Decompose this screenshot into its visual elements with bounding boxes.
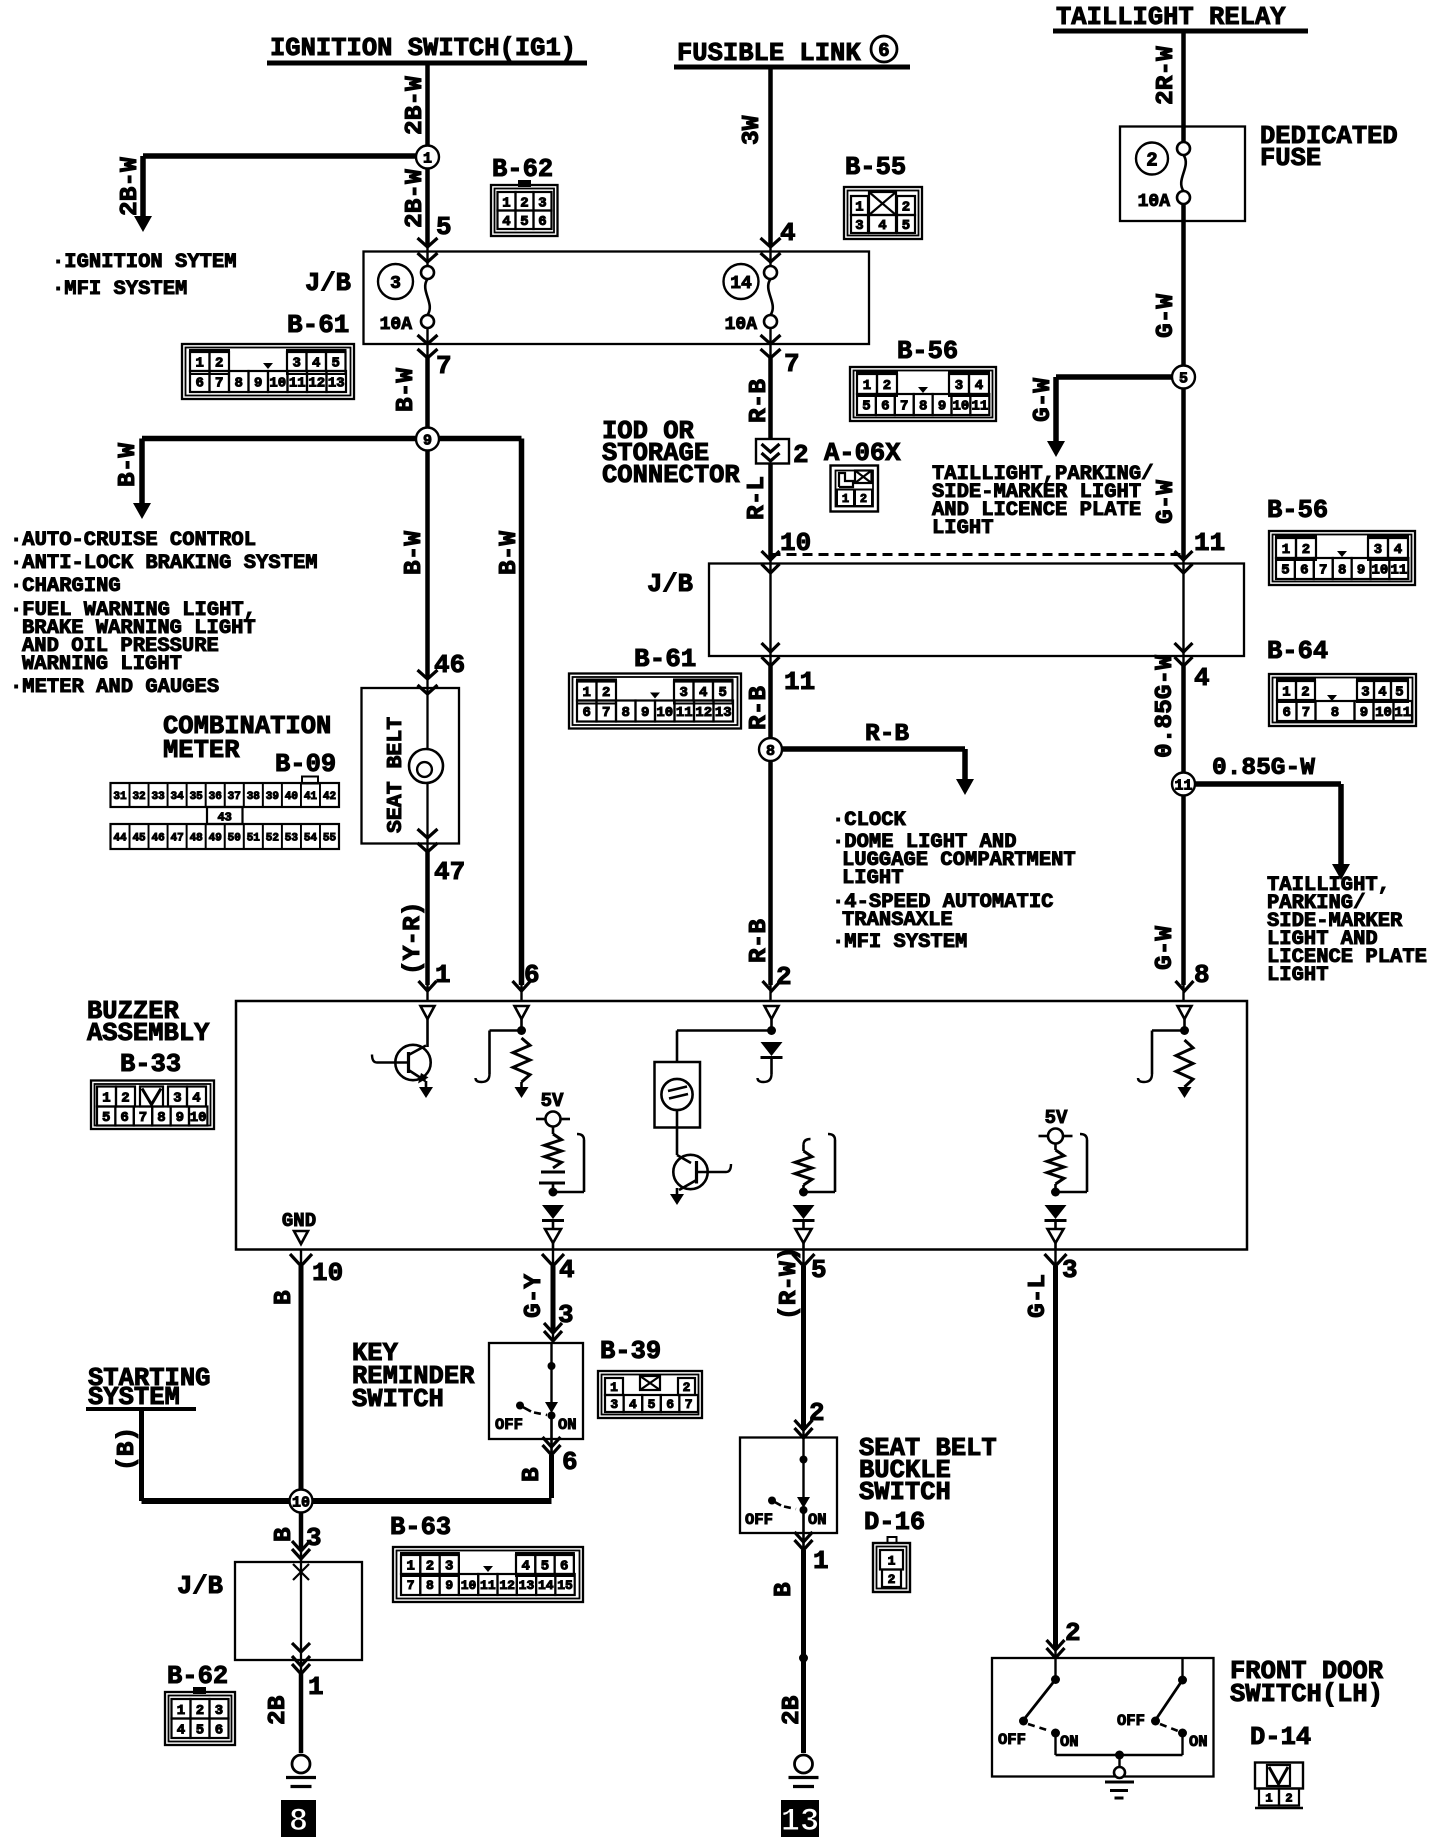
svg-text:5: 5	[1395, 685, 1403, 701]
svg-text:J/B: J/B	[305, 269, 351, 298]
svg-text:1: 1	[855, 200, 863, 216]
svg-text:39: 39	[266, 791, 279, 803]
svg-text:6: 6	[538, 214, 546, 230]
svg-text:1: 1	[406, 1559, 414, 1575]
svg-text:3: 3	[680, 685, 688, 701]
svg-text:OFF: OFF	[745, 1511, 773, 1529]
svg-text:B-55: B-55	[845, 153, 906, 182]
svg-text:2: 2	[520, 195, 528, 211]
svg-text:B-W: B-W	[496, 531, 523, 575]
svg-text:4: 4	[521, 1559, 529, 1575]
svg-text:8: 8	[289, 1803, 308, 1840]
svg-text:7: 7	[602, 705, 610, 721]
svg-text:11: 11	[1174, 777, 1192, 794]
svg-text:OFF: OFF	[495, 1416, 523, 1434]
svg-text:48: 48	[190, 832, 204, 844]
svg-text:2B-W: 2B-W	[117, 157, 144, 216]
svg-text:8: 8	[426, 1578, 434, 1593]
svg-text:·METER AND GAUGES: ·METER AND GAUGES	[10, 676, 219, 699]
svg-text:B-62: B-62	[492, 155, 553, 184]
svg-text:4: 4	[975, 378, 983, 394]
svg-text:5: 5	[862, 399, 870, 415]
svg-text:6: 6	[560, 1559, 568, 1575]
svg-text:35: 35	[190, 791, 204, 803]
svg-text:43: 43	[217, 811, 231, 825]
svg-text:SEAT BELT: SEAT BELT	[384, 717, 408, 833]
svg-text:36: 36	[209, 791, 222, 803]
svg-text:4: 4	[1394, 542, 1402, 558]
svg-text:WARNING LIGHT: WARNING LIGHT	[22, 653, 182, 676]
svg-text:2: 2	[1146, 149, 1157, 171]
svg-text:47: 47	[434, 857, 465, 887]
svg-text:5: 5	[520, 214, 528, 230]
svg-text:9: 9	[176, 1110, 184, 1126]
svg-text:9: 9	[938, 399, 946, 415]
svg-text:53: 53	[285, 832, 299, 844]
svg-text:45: 45	[132, 832, 146, 844]
svg-text:2: 2	[1285, 1791, 1292, 1805]
svg-text:B-W: B-W	[393, 368, 420, 412]
svg-text:B-56: B-56	[1267, 496, 1328, 525]
svg-text:52: 52	[266, 832, 279, 844]
svg-text:(B): (B)	[114, 1427, 141, 1471]
svg-text:4: 4	[699, 685, 707, 701]
svg-text:32: 32	[132, 791, 145, 803]
svg-text:10: 10	[1375, 705, 1392, 721]
svg-text:50: 50	[228, 832, 241, 844]
svg-text:7: 7	[407, 1578, 415, 1593]
svg-text:13: 13	[519, 1578, 535, 1593]
svg-text:3: 3	[538, 195, 546, 211]
svg-text:10: 10	[292, 1494, 310, 1511]
svg-text:5: 5	[902, 218, 910, 234]
svg-text:6: 6	[666, 1397, 674, 1412]
svg-text:4: 4	[312, 356, 320, 372]
svg-text:14: 14	[538, 1578, 554, 1593]
svg-text:2: 2	[793, 440, 809, 470]
svg-text:5: 5	[648, 1397, 656, 1412]
svg-text:TAILLIGHT RELAY: TAILLIGHT RELAY	[1056, 3, 1286, 32]
svg-text:ASSEMBLY: ASSEMBLY	[87, 1019, 210, 1048]
svg-text:A-06X: A-06X	[824, 439, 901, 468]
svg-text:B-61: B-61	[287, 310, 349, 340]
svg-text:8: 8	[1338, 563, 1346, 579]
svg-text:11: 11	[1194, 528, 1225, 558]
svg-text:2: 2	[888, 1572, 896, 1587]
svg-text:J/B: J/B	[177, 1572, 223, 1601]
svg-text:49: 49	[209, 832, 222, 844]
svg-text:G-W: G-W	[1030, 378, 1057, 422]
svg-text:8: 8	[622, 705, 630, 721]
svg-text:B: B	[519, 1467, 546, 1482]
svg-text:2B-W: 2B-W	[402, 169, 429, 228]
svg-text:7: 7	[784, 349, 800, 379]
svg-text:FUSIBLE LINK: FUSIBLE LINK	[677, 39, 861, 68]
svg-text:11: 11	[971, 399, 988, 415]
svg-text:1: 1	[583, 685, 591, 701]
svg-text:5: 5	[811, 1255, 827, 1285]
svg-text:12: 12	[499, 1578, 515, 1593]
svg-text:4: 4	[1194, 663, 1210, 693]
svg-text:10: 10	[461, 1578, 477, 1593]
svg-text:7: 7	[436, 351, 452, 381]
svg-text:B-62: B-62	[167, 1662, 228, 1691]
svg-text:0.85G-W: 0.85G-W	[1152, 655, 1179, 758]
svg-text:8: 8	[1194, 960, 1210, 990]
svg-text:2: 2	[776, 962, 792, 992]
svg-text:4: 4	[780, 218, 796, 248]
svg-text:·MFI SYSTEM: ·MFI SYSTEM	[832, 931, 967, 954]
svg-text:1: 1	[863, 378, 871, 394]
svg-text:(Y-R): (Y-R)	[400, 901, 427, 975]
svg-text:B-56: B-56	[897, 337, 958, 366]
svg-text:4: 4	[629, 1397, 637, 1412]
svg-text:2: 2	[602, 685, 610, 701]
svg-text:·CLOCK: ·CLOCK	[832, 809, 907, 832]
svg-text:R-B: R-B	[865, 721, 909, 748]
svg-text:10: 10	[269, 376, 286, 392]
svg-text:1: 1	[1265, 1791, 1272, 1805]
svg-text:8: 8	[1331, 705, 1339, 721]
svg-text:B-61: B-61	[634, 644, 696, 674]
svg-text:METER: METER	[163, 736, 240, 765]
svg-text:8: 8	[766, 743, 775, 760]
svg-text:6: 6	[1300, 563, 1308, 579]
svg-text:5: 5	[332, 356, 340, 372]
svg-text:31: 31	[113, 791, 127, 803]
svg-text:6: 6	[881, 399, 889, 415]
svg-text:3: 3	[955, 378, 963, 394]
svg-text:G-L: G-L	[1025, 1274, 1052, 1318]
svg-text:1: 1	[196, 356, 204, 372]
svg-text:42: 42	[323, 791, 336, 803]
svg-text:·IGNITION SYTEM: ·IGNITION SYTEM	[52, 251, 237, 274]
svg-text:2: 2	[196, 1703, 204, 1719]
svg-text:G-Y: G-Y	[521, 1274, 548, 1318]
svg-text:54: 54	[304, 832, 318, 844]
svg-text:2: 2	[426, 1559, 434, 1575]
svg-text:3: 3	[173, 1091, 181, 1107]
svg-text:1: 1	[813, 1546, 829, 1576]
svg-text:5: 5	[1281, 563, 1289, 579]
svg-text:4: 4	[177, 1722, 185, 1738]
svg-text:13: 13	[328, 376, 345, 392]
svg-text:1: 1	[610, 1380, 618, 1395]
svg-text:5: 5	[1179, 370, 1188, 387]
svg-text:3: 3	[1374, 542, 1382, 558]
svg-text:7: 7	[900, 399, 908, 415]
svg-text:B-33: B-33	[120, 1050, 181, 1079]
svg-text:SWITCH(LH): SWITCH(LH)	[1230, 1680, 1383, 1709]
svg-text:B-39: B-39	[600, 1337, 661, 1366]
svg-text:6: 6	[196, 376, 204, 392]
svg-text:11: 11	[676, 705, 693, 721]
svg-text:TRANSAXLE: TRANSAXLE	[842, 909, 953, 932]
svg-text:38: 38	[247, 791, 261, 803]
svg-text:3W: 3W	[739, 115, 766, 145]
svg-text:41: 41	[304, 791, 318, 803]
svg-text:ON: ON	[1189, 1733, 1208, 1751]
svg-text:3: 3	[1062, 1255, 1078, 1285]
svg-text:B-09: B-09	[275, 750, 336, 779]
svg-text:40: 40	[285, 791, 298, 803]
svg-text:14: 14	[730, 274, 752, 294]
svg-text:4: 4	[502, 214, 510, 230]
svg-text:51: 51	[247, 832, 261, 844]
svg-text:10A: 10A	[1138, 192, 1171, 212]
svg-text:1: 1	[308, 1672, 324, 1702]
svg-text:37: 37	[228, 791, 241, 803]
svg-text:LIGHT: LIGHT	[932, 517, 994, 540]
svg-text:7: 7	[1302, 705, 1310, 721]
svg-text:9: 9	[1357, 563, 1365, 579]
svg-text:OFF: OFF	[998, 1731, 1026, 1749]
svg-text:2B-W: 2B-W	[402, 76, 429, 135]
svg-text:11: 11	[1390, 563, 1407, 579]
svg-text:·AUTO-CRUISE CONTROL: ·AUTO-CRUISE CONTROL	[10, 529, 256, 552]
svg-text:1: 1	[888, 1553, 896, 1568]
svg-text:LIGHT: LIGHT	[842, 867, 904, 890]
svg-text:5: 5	[719, 685, 727, 701]
svg-text:G-W: G-W	[1152, 926, 1179, 970]
svg-text:R-B: R-B	[746, 379, 773, 423]
svg-text:R-B: R-B	[746, 919, 773, 963]
svg-text:9: 9	[641, 705, 649, 721]
svg-text:1: 1	[1282, 542, 1290, 558]
svg-text:SWITCH: SWITCH	[352, 1385, 444, 1414]
svg-text:12: 12	[308, 376, 325, 392]
svg-text:12: 12	[695, 705, 712, 721]
svg-text:33: 33	[151, 791, 165, 803]
svg-text:11: 11	[1394, 705, 1411, 721]
svg-text:5: 5	[102, 1110, 110, 1126]
svg-text:3: 3	[610, 1397, 618, 1412]
svg-text:6: 6	[583, 705, 591, 721]
svg-text:3: 3	[445, 1559, 453, 1575]
svg-text:CONNECTOR: CONNECTOR	[602, 461, 740, 490]
svg-text:10: 10	[953, 399, 970, 415]
svg-text:ON: ON	[1060, 1733, 1079, 1751]
svg-text:2: 2	[215, 356, 223, 372]
svg-text:ON: ON	[808, 1511, 827, 1529]
svg-text:1: 1	[177, 1703, 185, 1719]
svg-text:LIGHT: LIGHT	[1267, 964, 1329, 987]
svg-text:·MFI SYSTEM: ·MFI SYSTEM	[52, 278, 187, 301]
svg-text:4: 4	[878, 218, 886, 234]
svg-text:B: B	[271, 1527, 298, 1542]
svg-text:2R-W: 2R-W	[1153, 46, 1180, 105]
svg-text:D-14: D-14	[1250, 1723, 1311, 1752]
svg-text:46: 46	[151, 832, 164, 844]
svg-text:55: 55	[323, 832, 337, 844]
svg-text:7: 7	[215, 376, 223, 392]
svg-text:·ANTI-LOCK BRAKING SYSTEM: ·ANTI-LOCK BRAKING SYSTEM	[10, 552, 318, 575]
svg-text:1: 1	[423, 150, 432, 167]
svg-text:44: 44	[113, 832, 127, 844]
svg-text:GND: GND	[282, 1210, 316, 1232]
svg-text:D-16: D-16	[864, 1508, 925, 1537]
svg-text:47: 47	[171, 832, 184, 844]
svg-text:34: 34	[171, 791, 185, 803]
svg-text:11: 11	[289, 376, 306, 392]
svg-text:J/B: J/B	[647, 570, 693, 599]
svg-text:3: 3	[390, 274, 401, 294]
svg-text:·CHARGING: ·CHARGING	[10, 575, 121, 598]
svg-text:2: 2	[1302, 542, 1310, 558]
svg-text:5: 5	[436, 212, 452, 242]
svg-text:2: 2	[683, 1380, 691, 1395]
svg-text:1: 1	[102, 1091, 110, 1107]
svg-text:5: 5	[196, 1722, 204, 1738]
svg-text:11: 11	[784, 667, 815, 697]
svg-text:0.85G-W: 0.85G-W	[1212, 755, 1315, 782]
svg-text:3: 3	[855, 218, 863, 234]
svg-text:B-64: B-64	[1267, 637, 1328, 666]
svg-text:SWITCH: SWITCH	[859, 1478, 951, 1507]
svg-text:2: 2	[883, 378, 891, 394]
svg-text:8: 8	[919, 399, 927, 415]
svg-text:1: 1	[1282, 685, 1290, 701]
svg-text:7: 7	[139, 1110, 147, 1126]
svg-text:15: 15	[557, 1578, 573, 1593]
svg-text:46: 46	[434, 650, 465, 680]
svg-text:1: 1	[435, 960, 451, 990]
svg-text:G-W: G-W	[1153, 480, 1180, 524]
svg-text:7: 7	[1319, 563, 1327, 579]
svg-text:8: 8	[235, 376, 243, 392]
svg-text:11: 11	[480, 1578, 496, 1593]
svg-text:9: 9	[1360, 705, 1368, 721]
svg-text:13: 13	[715, 705, 732, 721]
svg-text:5V: 5V	[541, 1090, 564, 1112]
svg-text:IGNITION SWITCH(IG1): IGNITION SWITCH(IG1)	[270, 34, 576, 63]
svg-text:2B: 2B	[265, 1695, 292, 1725]
svg-text:10: 10	[656, 705, 673, 721]
svg-text:10A: 10A	[725, 315, 758, 335]
svg-text:B-63: B-63	[390, 1513, 451, 1542]
svg-text:2: 2	[902, 200, 910, 216]
svg-text:2: 2	[1065, 1618, 1081, 1648]
svg-text:5: 5	[541, 1559, 549, 1575]
svg-text:5V: 5V	[1045, 1107, 1068, 1129]
svg-text:6: 6	[120, 1110, 128, 1126]
svg-text:B: B	[771, 1582, 798, 1597]
svg-text:1: 1	[502, 195, 510, 211]
svg-text:7: 7	[685, 1397, 693, 1412]
svg-text:9: 9	[254, 376, 262, 392]
svg-text:6: 6	[215, 1722, 223, 1738]
svg-text:10: 10	[1372, 563, 1389, 579]
svg-text:9: 9	[445, 1578, 453, 1593]
svg-text:R-L: R-L	[744, 476, 771, 520]
svg-text:9: 9	[423, 432, 432, 449]
svg-text:10: 10	[312, 1258, 343, 1288]
svg-text:FUSE: FUSE	[1260, 144, 1321, 173]
svg-text:6: 6	[562, 1447, 578, 1477]
svg-text:B: B	[271, 1290, 298, 1305]
svg-text:R-B: R-B	[746, 686, 773, 730]
svg-text:13: 13	[781, 1803, 819, 1840]
svg-text:4: 4	[192, 1091, 200, 1107]
svg-text:6: 6	[1283, 705, 1291, 721]
svg-text:8: 8	[157, 1110, 165, 1126]
svg-text:OFF: OFF	[1117, 1712, 1145, 1730]
svg-text:3: 3	[293, 356, 301, 372]
svg-text:3: 3	[215, 1703, 223, 1719]
svg-text:B-W: B-W	[401, 531, 428, 575]
svg-text:(R-W): (R-W)	[776, 1246, 803, 1320]
svg-text:10A: 10A	[380, 315, 413, 335]
svg-text:4: 4	[559, 1255, 575, 1285]
svg-text:B-W: B-W	[115, 443, 142, 487]
svg-text:ON: ON	[558, 1416, 577, 1434]
svg-text:2B: 2B	[779, 1695, 806, 1725]
svg-text:6: 6	[878, 40, 889, 62]
svg-text:1: 1	[842, 492, 849, 506]
svg-text:2: 2	[121, 1091, 129, 1107]
svg-text:2: 2	[860, 492, 867, 506]
svg-text:10: 10	[190, 1110, 207, 1126]
svg-text:4: 4	[1378, 685, 1386, 701]
svg-text:3: 3	[1361, 685, 1369, 701]
svg-text:2: 2	[1301, 685, 1309, 701]
svg-text:G-W: G-W	[1153, 294, 1180, 338]
